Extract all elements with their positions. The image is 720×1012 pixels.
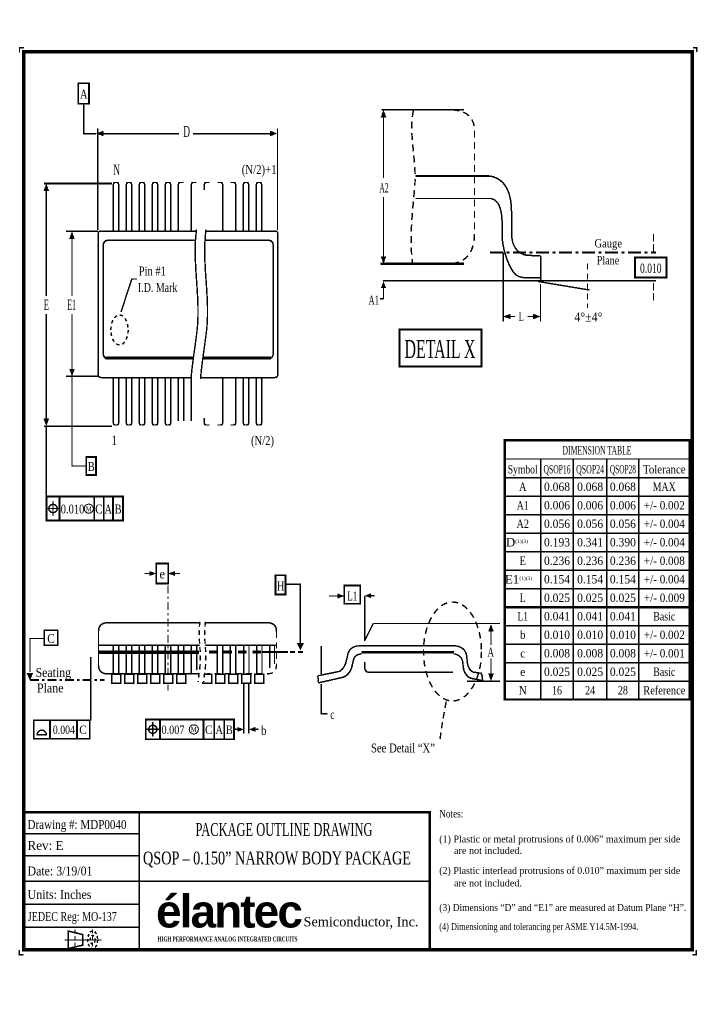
table row b	[520, 627, 685, 642]
svg-text:C: C	[205, 722, 213, 737]
corner tick top-left	[20, 48, 24, 53]
boxed dimension 0.010	[635, 258, 667, 278]
flatness feature control frame 0.004 C	[34, 720, 90, 739]
front view mold parting thin line	[99, 644, 277, 646]
svg-text:0.068: 0.068	[577, 479, 603, 494]
break wavy line right (top view)	[201, 230, 208, 380]
svg-text:16: 16	[552, 683, 562, 698]
svg-text:Semiconductor, Inc.: Semiconductor, Inc.	[304, 915, 419, 931]
svg-text:(1) Plastic or metal protrusio: (1) Plastic or metal protrusions of 0.00…	[439, 834, 680, 846]
svg-text:A: A	[105, 501, 113, 516]
svg-text:0.154: 0.154	[610, 572, 636, 587]
svg-text:M: M	[191, 725, 197, 734]
svg-text:C: C	[95, 501, 103, 516]
datum C box	[44, 630, 58, 645]
top pin row	[113, 183, 261, 232]
pin 1 leader line	[121, 279, 137, 312]
see detail X dashed circle	[424, 602, 482, 701]
front view lead frame band right dashed	[209, 651, 262, 654]
side view lead top thin line	[359, 645, 455, 647]
svg-text:L1: L1	[517, 609, 528, 624]
seating plane dash-dot line (front view)	[30, 679, 105, 681]
svg-text:Notes:: Notes:	[439, 807, 463, 821]
svg-text:(3) Dimensions “D” and “E1” ar: (3) Dimensions “D” and “E1” are measured…	[439, 902, 686, 914]
svg-text:0.236: 0.236	[544, 553, 570, 568]
position symbol	[46, 501, 61, 516]
table row D	[506, 535, 685, 550]
svg-text:E: E	[519, 553, 526, 568]
D extension line right	[277, 129, 279, 231]
inner body thick bottom edge	[106, 356, 272, 359]
svg-text:+/- 0.004: +/- 0.004	[644, 572, 685, 587]
dimension E1 line	[72, 237, 86, 466]
svg-text:0.010: 0.010	[640, 261, 662, 277]
leader from H box to datum plane	[286, 584, 301, 643]
A2 extension bottom (body bottom thick line)	[381, 262, 465, 265]
datum H box	[276, 575, 286, 594]
side view lead thick line	[361, 651, 453, 654]
E extension line top	[44, 182, 112, 184]
svg-text:Tolerance: Tolerance	[643, 461, 686, 476]
dimension L (detail)	[503, 253, 540, 322]
A2 extension top (body top line)	[382, 109, 465, 111]
svg-text:A: A	[215, 722, 223, 737]
svg-text:D: D	[183, 122, 190, 141]
lead upper thick line (detail)	[416, 175, 490, 177]
leader from fcf up	[90, 657, 92, 720]
package body outline (top view)	[98, 231, 277, 378]
svg-text:HIGH PERFORMANCE ANALOG INTEGR: HIGH PERFORMANCE ANALOG INTEGRATED CIRCU…	[158, 936, 298, 944]
datum C triangle on seating plane	[27, 673, 34, 680]
seating plane line (detail)	[383, 280, 656, 282]
front view body outline	[99, 623, 277, 674]
svg-text:0.010: 0.010	[610, 627, 636, 642]
svg-text:0.341: 0.341	[577, 535, 603, 550]
svg-text:0.068: 0.068	[610, 479, 636, 494]
svg-text:+/- 0.002: +/- 0.002	[644, 627, 685, 642]
dimension L1 box	[344, 585, 360, 603]
svg-text:0.025: 0.025	[610, 664, 636, 679]
svg-text:E1: E1	[67, 297, 76, 314]
svg-text:N: N	[519, 683, 528, 698]
svg-text:c: c	[330, 708, 334, 723]
svg-text:28: 28	[618, 683, 628, 698]
table row c	[520, 646, 684, 661]
DETAIL X box	[400, 329, 482, 366]
dashed body right edge (detail)	[452, 110, 475, 264]
svg-text:0.154: 0.154	[577, 572, 603, 587]
dashed angle extension line	[587, 264, 589, 309]
svg-text:MAX: MAX	[653, 479, 676, 494]
svg-text:4°±4°: 4°±4°	[574, 309, 602, 324]
E1 extension line bottom	[66, 375, 98, 377]
svg-text:DETAIL X: DETAIL X	[405, 334, 476, 364]
svg-text:Units: Inches: Units: Inches	[28, 888, 92, 903]
svg-text:L1: L1	[347, 588, 357, 603]
svg-text:0.006: 0.006	[544, 498, 570, 513]
package inner body rounded rect	[103, 240, 273, 358]
svg-text:(N/2): (N/2)	[251, 434, 274, 449]
svg-text:are not included.: are not included.	[454, 845, 522, 857]
projection symbol centerlines	[65, 929, 102, 950]
svg-text:+/- 0.002: +/- 0.002	[644, 498, 685, 513]
svg-text:0.010: 0.010	[61, 501, 85, 516]
svg-text:Rev: E: Rev: E	[28, 839, 64, 854]
break line white band (top view)	[191, 230, 208, 380]
svg-text:+/- 0.004: +/- 0.004	[644, 516, 685, 531]
svg-text:0.008: 0.008	[610, 646, 636, 661]
table row A2	[516, 516, 685, 531]
svg-text:0.056: 0.056	[610, 516, 636, 531]
svg-text:A: A	[80, 88, 88, 103]
svg-text:L: L	[520, 590, 526, 605]
svg-text:0.041: 0.041	[577, 609, 603, 624]
svg-text:+/- 0.004: +/- 0.004	[644, 535, 685, 550]
svg-text:0.193: 0.193	[544, 535, 570, 550]
svg-text:E: E	[44, 297, 49, 314]
svg-text:+/- 0.008: +/- 0.008	[644, 553, 685, 568]
svg-text:N: N	[113, 162, 120, 179]
corner tick bottom-right	[693, 950, 697, 954]
e left arrow	[145, 573, 151, 575]
svg-text:e: e	[520, 664, 525, 679]
svg-text:Basic: Basic	[653, 664, 675, 679]
svg-text:I.D. Mark: I.D. Mark	[138, 281, 178, 296]
projection symbol circles	[88, 931, 98, 949]
svg-text:A1: A1	[369, 293, 380, 308]
svg-text:A1: A1	[517, 498, 529, 513]
svg-text:Reference: Reference	[643, 683, 685, 698]
table row L	[520, 590, 685, 605]
svg-text:0.041: 0.041	[544, 609, 570, 624]
svg-text:H: H	[277, 579, 285, 594]
svg-text:1: 1	[112, 433, 118, 449]
svg-text:0.068: 0.068	[544, 479, 570, 494]
corner tick top-right	[693, 48, 697, 52]
svg-text:0.006: 0.006	[577, 498, 603, 513]
E1 extension line top	[66, 230, 98, 232]
svg-text:+/- 0.001: +/- 0.001	[644, 646, 685, 661]
datum plane H extension line	[262, 651, 288, 653]
svg-text:0.041: 0.041	[610, 609, 636, 624]
svg-text:B: B	[88, 459, 95, 474]
front pin feet	[112, 674, 264, 683]
svg-text:QSOP – 0.150” NARROW BODY PACK: QSOP – 0.150” NARROW BODY PACKAGE	[143, 848, 411, 869]
b right arrow	[255, 728, 259, 730]
4 degree foot angle line	[538, 282, 590, 291]
svg-text:Pin #1: Pin #1	[139, 264, 166, 279]
D extension line left	[97, 129, 99, 231]
svg-text:0.025: 0.025	[610, 590, 636, 605]
position feature control frame 0.007	[146, 720, 234, 740]
svg-text:M: M	[86, 505, 92, 514]
svg-text:0.236: 0.236	[577, 553, 603, 568]
svg-text:0.025: 0.025	[544, 590, 570, 605]
svg-text:(N/2)+1: (N/2)+1	[242, 163, 277, 178]
projection symbol trapezoid	[68, 931, 83, 949]
datum A box	[78, 83, 89, 104]
front pins right half bars	[217, 646, 274, 675]
svg-text:0.010: 0.010	[544, 627, 570, 642]
svg-text:0.056: 0.056	[577, 516, 603, 531]
svg-text:A: A	[519, 479, 527, 494]
table row A1	[517, 498, 685, 513]
svg-text:élantec: élantec	[156, 885, 302, 938]
A bottom extension line	[467, 680, 500, 682]
svg-text:c: c	[520, 646, 525, 661]
e centerline dashed	[167, 569, 169, 691]
feature control frame 0.010 (top view)	[47, 497, 124, 521]
svg-text:0.154: 0.154	[544, 572, 570, 587]
lead outer bend curve (detail)	[489, 176, 540, 256]
svg-text:C: C	[47, 631, 55, 646]
svg-text:QSOP24: QSOP24	[576, 461, 604, 476]
svg-text:DIMENSION TABLE: DIMENSION TABLE	[563, 443, 632, 458]
dimension c extension and bracket	[321, 646, 328, 714]
pin 1 I.D. mark dashed ellipse	[111, 315, 128, 345]
front view break wavy dashed lines	[198, 622, 206, 682]
svg-text:QSOP16: QSOP16	[544, 461, 571, 476]
svg-text:Gauge: Gauge	[595, 237, 623, 251]
svg-text:PACKAGE OUTLINE DRAWING: PACKAGE OUTLINE DRAWING	[196, 820, 373, 841]
L1 left arrow	[329, 595, 338, 597]
svg-text:JEDEC Reg: MO-137: JEDEC Reg: MO-137	[28, 910, 117, 925]
dimension E line	[45, 190, 47, 497]
svg-text:Plane: Plane	[597, 253, 620, 268]
svg-text:Symbol: Symbol	[508, 461, 538, 476]
svg-text:QSOP28: QSOP28	[610, 461, 636, 476]
side view body	[365, 624, 500, 673]
table row e	[520, 664, 675, 679]
tolerance zone vertical ticks at 0.010	[653, 234, 655, 301]
dimension D line with arrows	[102, 133, 270, 135]
svg-text:(4) Dimensioning and toleranci: (4) Dimensioning and tolerancing per ASM…	[439, 921, 638, 933]
svg-text:0.008: 0.008	[544, 646, 570, 661]
svg-text:b: b	[261, 723, 267, 738]
dashed body left wavy edge (detail)	[411, 110, 415, 263]
right lead bend (side view)	[454, 646, 483, 681]
lead lower thin line (detail)	[416, 198, 492, 200]
leader from C box to triangle	[30, 639, 44, 673]
svg-text:0.390: 0.390	[610, 535, 636, 550]
svg-text:0.006: 0.006	[610, 498, 636, 513]
svg-text:See Detail “X”: See Detail “X”	[371, 742, 435, 757]
table header row	[508, 461, 686, 476]
dimension A (side view)	[490, 631, 492, 676]
svg-text:B: B	[226, 722, 233, 737]
table row L1	[517, 609, 675, 624]
flatness symbol	[37, 730, 46, 735]
svg-text:(2) Plastic interlead protrusi: (2) Plastic interlead protrusions of 0.0…	[439, 865, 680, 877]
svg-text:0.025: 0.025	[577, 590, 603, 605]
svg-text:Drawing #: MDP0040: Drawing #: MDP0040	[28, 818, 127, 833]
dimension A1	[380, 288, 384, 299]
front pins left half bars	[113, 646, 196, 675]
dimension table grid	[505, 440, 690, 699]
gauge plane dash-dot line	[490, 252, 656, 254]
svg-text:Basic: Basic	[653, 609, 675, 624]
table row A	[519, 479, 676, 494]
svg-text:A2: A2	[379, 180, 389, 196]
lead inner bend curve (detail)	[491, 199, 540, 278]
svg-text:B: B	[115, 501, 122, 516]
table row N	[519, 683, 686, 698]
lead tip face (detail)	[540, 256, 542, 281]
front view lead frame thick band left	[99, 651, 200, 654]
dimension A2 line	[383, 116, 385, 258]
svg-text:A: A	[488, 644, 495, 659]
E extension line bottom	[44, 425, 112, 427]
bottom pin row	[113, 378, 261, 426]
svg-text:0.008: 0.008	[577, 646, 603, 661]
corner tick bottom-left	[19, 950, 23, 954]
svg-text:Date: 3/19/01: Date: 3/19/01	[28, 865, 93, 880]
svg-text:L: L	[519, 309, 524, 324]
position symbol (fcf2)	[146, 722, 160, 736]
L1 right arrow	[371, 595, 375, 597]
left lead bend (side view)	[318, 646, 362, 683]
svg-text:24: 24	[585, 683, 595, 698]
svg-text:0.236: 0.236	[610, 553, 636, 568]
dimension e box	[156, 564, 168, 584]
svg-text:0.025: 0.025	[544, 664, 570, 679]
front view body right/bottom dashed	[207, 632, 277, 674]
svg-text:0.004: 0.004	[53, 722, 75, 737]
svg-text:C: C	[79, 722, 87, 737]
dimension b extension lines	[244, 683, 249, 733]
e right arrow	[175, 573, 181, 575]
datum B box	[86, 457, 96, 475]
svg-text:e: e	[159, 567, 165, 582]
break wavy line left (top view)	[191, 230, 198, 380]
svg-text:A2: A2	[516, 516, 529, 531]
leader from A box to D dimension	[84, 104, 97, 134]
svg-text:Plane: Plane	[37, 681, 64, 696]
svg-text:b: b	[520, 627, 526, 642]
svg-text:+/- 0.009: +/- 0.009	[644, 590, 685, 605]
front view break white band	[198, 622, 206, 682]
svg-text:Seating: Seating	[36, 666, 72, 681]
svg-text:0.056: 0.056	[544, 516, 570, 531]
title block frame	[26, 812, 430, 948]
svg-text:0.010: 0.010	[577, 627, 603, 642]
table row E	[519, 553, 684, 568]
svg-text:0.007: 0.007	[162, 722, 185, 737]
table row E1	[505, 572, 685, 587]
dashed leader to See Detail text	[440, 702, 446, 742]
svg-text:are not included.: are not included.	[454, 878, 522, 890]
svg-text:0.025: 0.025	[577, 664, 603, 679]
L1 extension line	[364, 596, 366, 641]
b left arrow	[234, 728, 238, 730]
